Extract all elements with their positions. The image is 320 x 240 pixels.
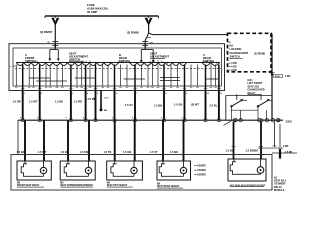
svg-text:X35/1: X35/1 xyxy=(275,76,281,78)
switch contact dots xyxy=(23,62,218,64)
svg-text:⇒ 4 RD: ⇒ 4 RD xyxy=(229,69,237,72)
svg-text:a: a xyxy=(37,117,38,119)
svg-text:1.5 BK: 1.5 BK xyxy=(170,150,178,154)
connector rail X xyxy=(18,119,283,121)
pin ticks at switch box bottom xyxy=(15,87,222,95)
connector label box X35/1 xyxy=(274,74,283,78)
svg-text:LOCKING: LOCKING xyxy=(230,47,242,51)
actuator M3 box xyxy=(60,161,95,180)
wire box5 left xyxy=(233,122,235,159)
svg-text:30 AMP: 30 AMP xyxy=(87,10,97,14)
switch output drop wires xyxy=(16,65,219,91)
svg-text:2: 2 xyxy=(41,93,42,95)
svg-text:10: 10 xyxy=(207,93,209,95)
svg-text:6: 6 xyxy=(116,93,117,95)
actuator M2 label xyxy=(17,183,44,188)
svg-text:RELAY: RELAY xyxy=(248,92,256,95)
actuator M3 label xyxy=(60,183,93,188)
mechanical coupling dash line xyxy=(15,67,221,69)
switch assembly inner box xyxy=(13,48,222,86)
wire labels above rail xyxy=(13,97,218,108)
node junction F2 xyxy=(147,38,154,44)
label 2.5 RD right xyxy=(285,152,292,154)
connector rail ticks xyxy=(21,119,280,121)
svg-text:5: 5 xyxy=(97,93,98,95)
svg-text:M3: M3 xyxy=(60,183,64,185)
svg-text:(2) RD/BK: (2) RD/BK xyxy=(254,52,265,55)
bus inside switch box xyxy=(16,62,220,64)
svg-text:1.5 BN: 1.5 BN xyxy=(154,104,162,108)
svg-text:1.5 WT: 1.5 WT xyxy=(29,100,38,104)
svg-text:SEAT REAR HEIGHT: SEAT REAR HEIGHT xyxy=(157,185,180,188)
actuator M2 front seat box xyxy=(17,161,51,180)
svg-text:M4: M4 xyxy=(107,182,111,185)
actuator M4 label xyxy=(107,182,133,188)
relay K9 dashed box xyxy=(228,33,272,72)
svg-text:a: a xyxy=(10,66,12,68)
svg-text:a: a xyxy=(66,117,67,119)
svg-text:SWITCH: SWITCH xyxy=(230,55,240,59)
arrow labels near M5 xyxy=(194,165,206,177)
svg-text:7: 7 xyxy=(137,93,138,95)
svg-text:SEAT BKT HEIGHT: SEAT BKT HEIGHT xyxy=(107,184,128,187)
svg-text:1: 1 xyxy=(24,93,25,95)
wire feed drop S2 xyxy=(140,44,155,63)
wire fuse F1 to switch box xyxy=(54,25,56,49)
connector tick at box entry right xyxy=(142,42,152,46)
actuator M27 box xyxy=(228,159,266,181)
svg-text:M2: M2 xyxy=(17,183,21,185)
svg-text:30: 30 xyxy=(229,42,231,44)
K9 arrow labels xyxy=(229,62,237,72)
switch assembly outer box xyxy=(9,44,225,91)
stub wire BK with terminal xyxy=(100,91,103,112)
inner box left pin tick xyxy=(10,66,16,68)
svg-text:(2) RD/WT: (2) RD/WT xyxy=(40,30,53,34)
svg-text:⇒ 4 BK/RD: ⇒ 4 BK/RD xyxy=(194,174,206,177)
thick terminal stub arrow xyxy=(279,149,282,160)
right rail extension xyxy=(272,152,297,154)
rail pin microlabels xyxy=(20,117,183,119)
svg-text:SWITCH: SWITCH xyxy=(69,57,80,61)
wire feed drop S1 xyxy=(48,44,59,61)
svg-text:M5: M5 xyxy=(157,184,161,186)
svg-text:1.5 GN: 1.5 GN xyxy=(123,150,131,154)
wire label BK stub xyxy=(93,98,109,112)
switch label B rear switch xyxy=(119,53,130,63)
relay K2 label right xyxy=(274,177,287,192)
fuse F1 arrow xyxy=(51,16,59,26)
svg-text:4: 4 xyxy=(87,92,88,95)
switch label seat adjustment rear xyxy=(150,52,169,59)
svg-text:4 RD: 4 RD xyxy=(283,145,289,148)
switch label seat adjustment front xyxy=(69,52,88,62)
relay module box xyxy=(226,96,272,121)
svg-text:FRONT SEAT RIGHT: FRONT SEAT RIGHT xyxy=(17,184,40,187)
svg-text:K9: K9 xyxy=(230,44,234,48)
svg-text:a: a xyxy=(132,117,133,119)
svg-text:1.5 TN: 1.5 TN xyxy=(104,150,112,154)
rail to relay diagonal xyxy=(224,121,232,126)
svg-text:CHANGEOVER: CHANGEOVER xyxy=(230,51,249,55)
svg-text:a: a xyxy=(83,117,84,119)
switch plunger ticks xyxy=(29,61,211,63)
svg-text:(2) RD/BK: (2) RD/BK xyxy=(127,30,139,34)
fuse F2 arrow xyxy=(145,16,153,26)
relay changeover contact right xyxy=(257,94,272,120)
svg-text:1.5 WT: 1.5 WT xyxy=(38,150,47,154)
svg-text:SEAT FORWARD/REARWARD: SEAT FORWARD/REARWARD xyxy=(60,184,93,187)
svg-text:1.5 VT: 1.5 VT xyxy=(150,150,158,154)
svg-text:1.5 BR: 1.5 BR xyxy=(13,100,21,104)
svg-text:1.5 RD/BK: 1.5 RD/BK xyxy=(246,149,259,153)
svg-text:1.5 BU: 1.5 BU xyxy=(226,149,234,153)
pin label at K9 entry xyxy=(229,42,231,44)
wire label (2) RD/BK xyxy=(127,30,139,34)
switch contact arc row xyxy=(17,63,220,66)
wire K9 right edge down xyxy=(271,34,273,121)
label 4 RD at junction xyxy=(285,75,291,78)
svg-text:a: a xyxy=(182,117,183,119)
stub wires right pair xyxy=(275,122,281,147)
actuator M5 box xyxy=(157,161,191,180)
fuse label text block xyxy=(87,3,108,14)
svg-text:2.5 BL: 2.5 BL xyxy=(210,104,218,108)
wire label (2) RD/WT xyxy=(40,30,53,34)
bottom enclosure box xyxy=(11,155,272,191)
svg-text:a: a xyxy=(112,117,113,119)
wire labels below rail xyxy=(17,149,259,154)
svg-text:a: a xyxy=(161,117,162,119)
svg-text:11: 11 xyxy=(220,93,222,95)
svg-text:1.5 GN: 1.5 GN xyxy=(174,103,182,107)
svg-text:9: 9 xyxy=(186,93,187,95)
thick wires rail to actuators xyxy=(25,120,184,161)
label (2) RD/BK in K9 xyxy=(254,52,265,55)
rail left end drop xyxy=(17,120,19,154)
relay module K2/1 label xyxy=(248,79,265,95)
thick wires to connector rail xyxy=(23,91,219,121)
svg-text:⇒ 4 BK/RD: ⇒ 4 BK/RD xyxy=(194,165,206,168)
connector rail label X35 xyxy=(286,121,293,124)
svg-text:BK: BK xyxy=(104,110,108,112)
svg-text:X35/2: X35/2 xyxy=(286,121,293,124)
wire fuse F2 down xyxy=(148,25,150,34)
junction marks right stubs xyxy=(232,146,283,148)
connector tick at box entry left xyxy=(47,42,58,46)
svg-text:M27 SEAT ADJUSTMENT FRO/RW: M27 SEAT ADJUSTMENT FRO/RW xyxy=(230,184,266,187)
actuator M4 box xyxy=(107,161,143,180)
node junction K9 out xyxy=(270,73,275,76)
svg-text:1.5 GY: 1.5 GY xyxy=(125,103,133,107)
wire box5 right xyxy=(260,122,262,159)
wire F2 branch to relay rail xyxy=(149,33,228,34)
svg-text:1.5 FW: 1.5 FW xyxy=(80,150,89,154)
svg-text:1.5 BK: 1.5 BK xyxy=(61,150,69,154)
svg-text:a: a xyxy=(20,117,21,119)
svg-text:8: 8 xyxy=(166,93,167,95)
junction row line xyxy=(258,147,283,149)
svg-text:MODULE: MODULE xyxy=(274,189,285,192)
svg-text:1.5 RD: 1.5 RD xyxy=(74,100,82,104)
svg-text:1.5 BR: 1.5 BR xyxy=(17,150,25,154)
actuator M5 label xyxy=(157,184,183,189)
svg-text:1.5 BK: 1.5 BK xyxy=(55,100,63,104)
relay changeover contact left xyxy=(230,94,257,120)
relay K9 label xyxy=(230,44,249,59)
svg-text:(2) WT: (2) WT xyxy=(191,103,199,107)
internal link wires xyxy=(29,78,218,82)
actuator M27 label xyxy=(230,184,266,187)
relay module pin circles xyxy=(234,119,280,122)
fuse supply bar xyxy=(45,16,159,18)
svg-text:4 RD: 4 RD xyxy=(285,75,291,78)
svg-text:2.5 BK: 2.5 BK xyxy=(88,97,96,101)
label 4 RD right xyxy=(283,145,289,148)
svg-text:⇒ 4 BK/RD: ⇒ 4 BK/RD xyxy=(194,169,206,172)
svg-text:3: 3 xyxy=(72,93,73,95)
wire F2 branch diagonal into box xyxy=(145,33,148,48)
switch label C rear switch xyxy=(203,53,214,63)
svg-text:1.5 Y: 1.5 Y xyxy=(104,98,110,100)
switch label A front switch xyxy=(25,53,36,63)
